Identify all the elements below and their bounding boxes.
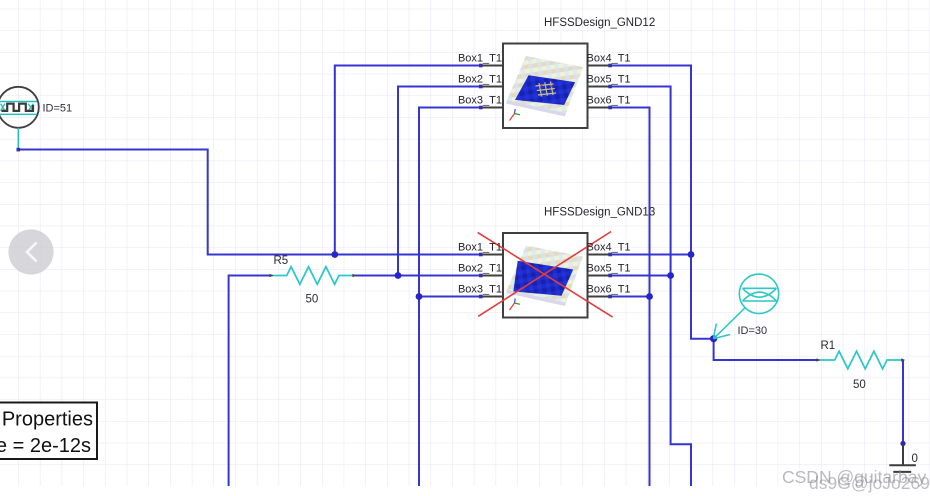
svg-text:Pulse Properties: Pulse Properties — [0, 409, 93, 431]
pulse source cyan rails — [0, 102, 37, 115]
svg-text:R1: R1 — [821, 340, 836, 352]
svg-text:Box6_T1: Box6_T1 — [587, 284, 631, 296]
svg-text:HFSSDesign_GND12: HFSSDesign_GND12 — [544, 17, 655, 29]
subcircuit GND12 preview image — [506, 56, 583, 117]
GND12 inner metal grid — [536, 82, 557, 97]
resistor R1 pin markers — [817, 358, 906, 362]
wire net1 GND12 Box1 vertical — [335, 66, 481, 255]
pulse source square wave — [2, 104, 34, 111]
wire net4 GND13 Box4 row — [610, 254, 691, 256]
svg-text:ID=30: ID=30 — [738, 325, 768, 337]
resistor R1 — [819, 351, 903, 369]
svg-text:Box1_T1: Box1_T1 — [458, 53, 502, 65]
resistor R5 — [272, 267, 355, 285]
svg-text:R5: R5 — [274, 255, 289, 267]
GND13 disabled red X — [478, 232, 613, 318]
svg-text:Box5_T1: Box5_T1 — [587, 74, 631, 86]
pulse source stub wire — [17, 128, 19, 150]
subcircuit GND13 preview image — [506, 246, 583, 307]
wire net3 row to GND13 Box3 — [419, 296, 481, 298]
wire net4 GND12 Box4 to probe node to R1 — [610, 66, 819, 361]
subcircuit U-GND13 box — [503, 233, 588, 318]
pin-end dots — [479, 64, 612, 299]
wire R5 left — [229, 276, 272, 487]
svg-text:ds9G@joJo269: ds9G@joJo269 — [809, 473, 930, 493]
wire R5 right to GND13 Box2 — [354, 275, 481, 277]
GND13 axes icon — [510, 299, 521, 311]
wire net3 GND12 Box3 vertical — [419, 108, 481, 487]
junction node dots — [331, 251, 905, 446]
svg-text:Box2_T1: Box2_T1 — [458, 74, 502, 86]
wire net2 GND12 Box2 vertical — [398, 87, 481, 276]
ground symbol 0 — [889, 444, 916, 472]
svg-text:Box4_T1: Box4_T1 — [587, 53, 631, 65]
svg-text:Box1_T1: Box1_T1 — [458, 242, 502, 254]
pulse source U51 circle — [0, 87, 39, 128]
svg-text:ID=51: ID=51 — [43, 102, 73, 114]
subcircuit U-GND12 box — [503, 44, 588, 129]
wire net5 GND13 Box5 row — [610, 275, 671, 277]
wire R1 right to ground — [902, 360, 904, 444]
back button overlay — [8, 229, 53, 274]
wire net6 GND13 Box6 row — [610, 296, 650, 298]
svg-text:Rise time = 2e-12s: Rise time = 2e-12s — [0, 435, 91, 457]
svg-text:Box3_T1: Box3_T1 — [458, 95, 502, 107]
annotation properties box — [0, 403, 97, 460]
svg-text:Box6_T1: Box6_T1 — [587, 95, 631, 107]
svg-text:0: 0 — [912, 453, 918, 465]
GND13 pin stubs — [481, 255, 610, 297]
current probe ID=30 circle — [739, 274, 778, 313]
svg-text:Box3_T1: Box3_T1 — [458, 284, 502, 296]
svg-text:Box4_T1: Box4_T1 — [587, 242, 631, 254]
svg-text:HFSSDesign_GND13: HFSSDesign_GND13 — [544, 207, 655, 219]
svg-text:50: 50 — [853, 379, 866, 391]
pulse source stub pin dot — [17, 148, 21, 152]
wire net6 GND12 Box6 vertical — [610, 108, 650, 487]
GND12 pin stubs — [481, 66, 610, 108]
current probe arrow — [714, 307, 746, 338]
GND12 grid red dots — [541, 84, 553, 87]
svg-text:Box5_T1: Box5_T1 — [587, 263, 631, 275]
watermark — [782, 467, 930, 493]
wire net5 GND12 Box5 vertical with jog — [610, 87, 691, 487]
GND12 axes icon — [510, 109, 521, 121]
svg-text:Box2_T1: Box2_T1 — [458, 263, 502, 275]
wire net1 source to GND13 Box1 — [18, 150, 481, 255]
resistor R5 pin markers — [270, 274, 357, 278]
svg-text:50: 50 — [306, 294, 319, 306]
